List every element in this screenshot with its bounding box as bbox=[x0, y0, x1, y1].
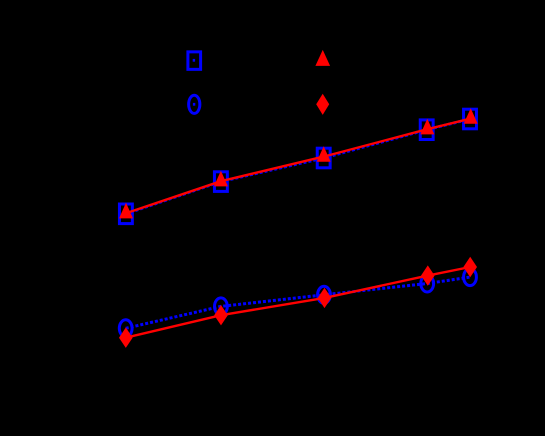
legend: red diamond marker bbox=[316, 94, 329, 115]
node: blue square marker 5 bbox=[464, 109, 477, 129]
legend: red triangle marker bbox=[315, 50, 330, 66]
wire: upper blue dotted series line (through open-square points) bbox=[126, 119, 470, 214]
legend: blue dotted line dot inside square bbox=[193, 59, 195, 62]
legend: blue open circle marker bbox=[189, 95, 200, 113]
node: red diamond marker 3 bbox=[318, 288, 332, 308]
node: red triangle marker 1 bbox=[119, 203, 133, 219]
node: blue circle marker 1 bbox=[119, 320, 132, 337]
node: blue circle marker 2 bbox=[215, 298, 228, 315]
node: red diamond marker 2 bbox=[214, 305, 228, 325]
node: red diamond marker 4 bbox=[421, 265, 435, 285]
node: red diamond marker 1 bbox=[119, 328, 133, 348]
node: blue square marker 2 bbox=[214, 172, 227, 192]
node: red triangle marker 5 bbox=[464, 108, 478, 124]
node: blue square marker 3 bbox=[317, 148, 330, 168]
wire: lower blue dotted series line (through open-circle points) bbox=[126, 277, 470, 328]
node: blue circle marker 5 bbox=[464, 269, 477, 286]
wire: upper red solid series line (through triangle points) bbox=[126, 119, 471, 214]
node: blue circle marker 4 bbox=[421, 275, 434, 292]
wire: lower red solid series line (through diamond points) bbox=[126, 267, 470, 338]
node: red triangle marker 2 bbox=[214, 171, 228, 187]
node: blue square marker 1 bbox=[119, 204, 132, 224]
legend: blue dotted line dot inside circle bbox=[193, 103, 195, 106]
node: red triangle marker 3 bbox=[317, 146, 331, 162]
node: red triangle marker 4 bbox=[420, 119, 434, 135]
node: blue square marker 4 bbox=[420, 120, 433, 140]
legend: blue open square marker bbox=[188, 52, 201, 70]
node: blue circle marker 3 bbox=[318, 286, 331, 303]
node: red diamond marker 5 bbox=[463, 257, 477, 277]
